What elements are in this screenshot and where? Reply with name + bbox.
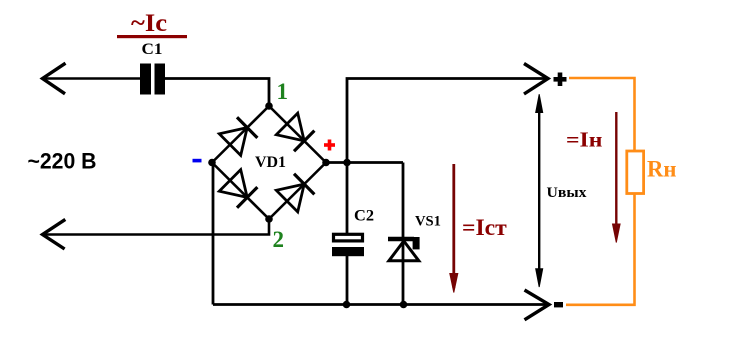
- svg-text:Rн: Rн: [647, 157, 677, 182]
- wire: node + to zener branch corner: [326, 161, 403, 164]
- capacitor C2 (polarized): [332, 234, 364, 256]
- current arrow =Iст: [450, 164, 458, 293]
- underline for ~Ic: [117, 35, 187, 38]
- svg-text:C1: C1: [142, 41, 163, 58]
- wire: bottom rail to − output: [213, 303, 546, 306]
- svg-text:=Iст: =Iст: [462, 215, 508, 240]
- diode VD1.3 (− to 2): [219, 170, 257, 208]
- junction dot VS1 at bottom rail: [400, 301, 408, 309]
- diode VD1.2 (1 to +): [276, 113, 314, 151]
- resistor Rн: [627, 151, 644, 194]
- wire: node − down to bottom rail: [212, 163, 215, 305]
- svg-text:VD1: VD1: [255, 154, 286, 171]
- node − junction dot: [208, 159, 216, 167]
- AC input arrow (bottom, pointing left): [43, 219, 66, 249]
- svg-text:C2: C2: [354, 208, 374, 225]
- Uвых measurement arrow (double-headed): [536, 94, 543, 287]
- label + output terminal: [554, 73, 567, 87]
- AC input arrow (top, pointing left): [43, 63, 66, 94]
- bridge edge: node 2 to node +: [269, 163, 326, 220]
- wire: tap down to C2: [346, 163, 349, 235]
- node 1 junction dot: [265, 102, 273, 110]
- current arrow =Iн: [613, 112, 621, 243]
- svg-text:VS1: VS1: [415, 214, 441, 230]
- svg-text:1: 1: [277, 79, 289, 104]
- wire: top AC line from input arrow to C1: [43, 77, 141, 80]
- diode VD1.4 (2 to +): [276, 174, 314, 212]
- load loop wire (orange), + side: [569, 78, 635, 152]
- label + polarity (red): [324, 140, 335, 151]
- wire: tap up to + output rail: [347, 79, 546, 163]
- output + arrow (pointing right): [524, 64, 548, 95]
- output − arrow (pointing right): [525, 290, 550, 320]
- bridge edge: node − to node 1: [212, 106, 269, 163]
- node + junction dot: [322, 159, 330, 167]
- zener diode VS1: [388, 237, 420, 261]
- node 2 junction dot: [265, 215, 273, 223]
- junction dot at filter tap: [343, 159, 351, 167]
- svg-text:=Iн: =Iн: [566, 128, 603, 152]
- bridge edge: node 1 to node +: [269, 106, 326, 163]
- label − output terminal: [554, 302, 563, 307]
- wire: C1 to node 1: [165, 79, 270, 105]
- wire: C2 to bottom rail: [346, 256, 349, 305]
- load loop wire (orange), − side: [566, 193, 635, 305]
- wire: zener branch vertical: [402, 163, 405, 305]
- capacitor C1: [140, 64, 165, 95]
- bridge edge: node − to node 2: [212, 163, 269, 220]
- svg-text:~Ic: ~Ic: [131, 10, 167, 37]
- diode VD1.1 (− to 1): [219, 117, 257, 155]
- svg-text:~220 В: ~220 В: [28, 149, 97, 174]
- label − polarity (blue): [193, 159, 202, 163]
- wire: bottom AC line from input arrow to node 2: [43, 221, 269, 235]
- svg-text:2: 2: [273, 227, 285, 252]
- junction dot C2 at bottom rail: [343, 301, 351, 309]
- svg-text:Uвых: Uвых: [547, 185, 588, 201]
